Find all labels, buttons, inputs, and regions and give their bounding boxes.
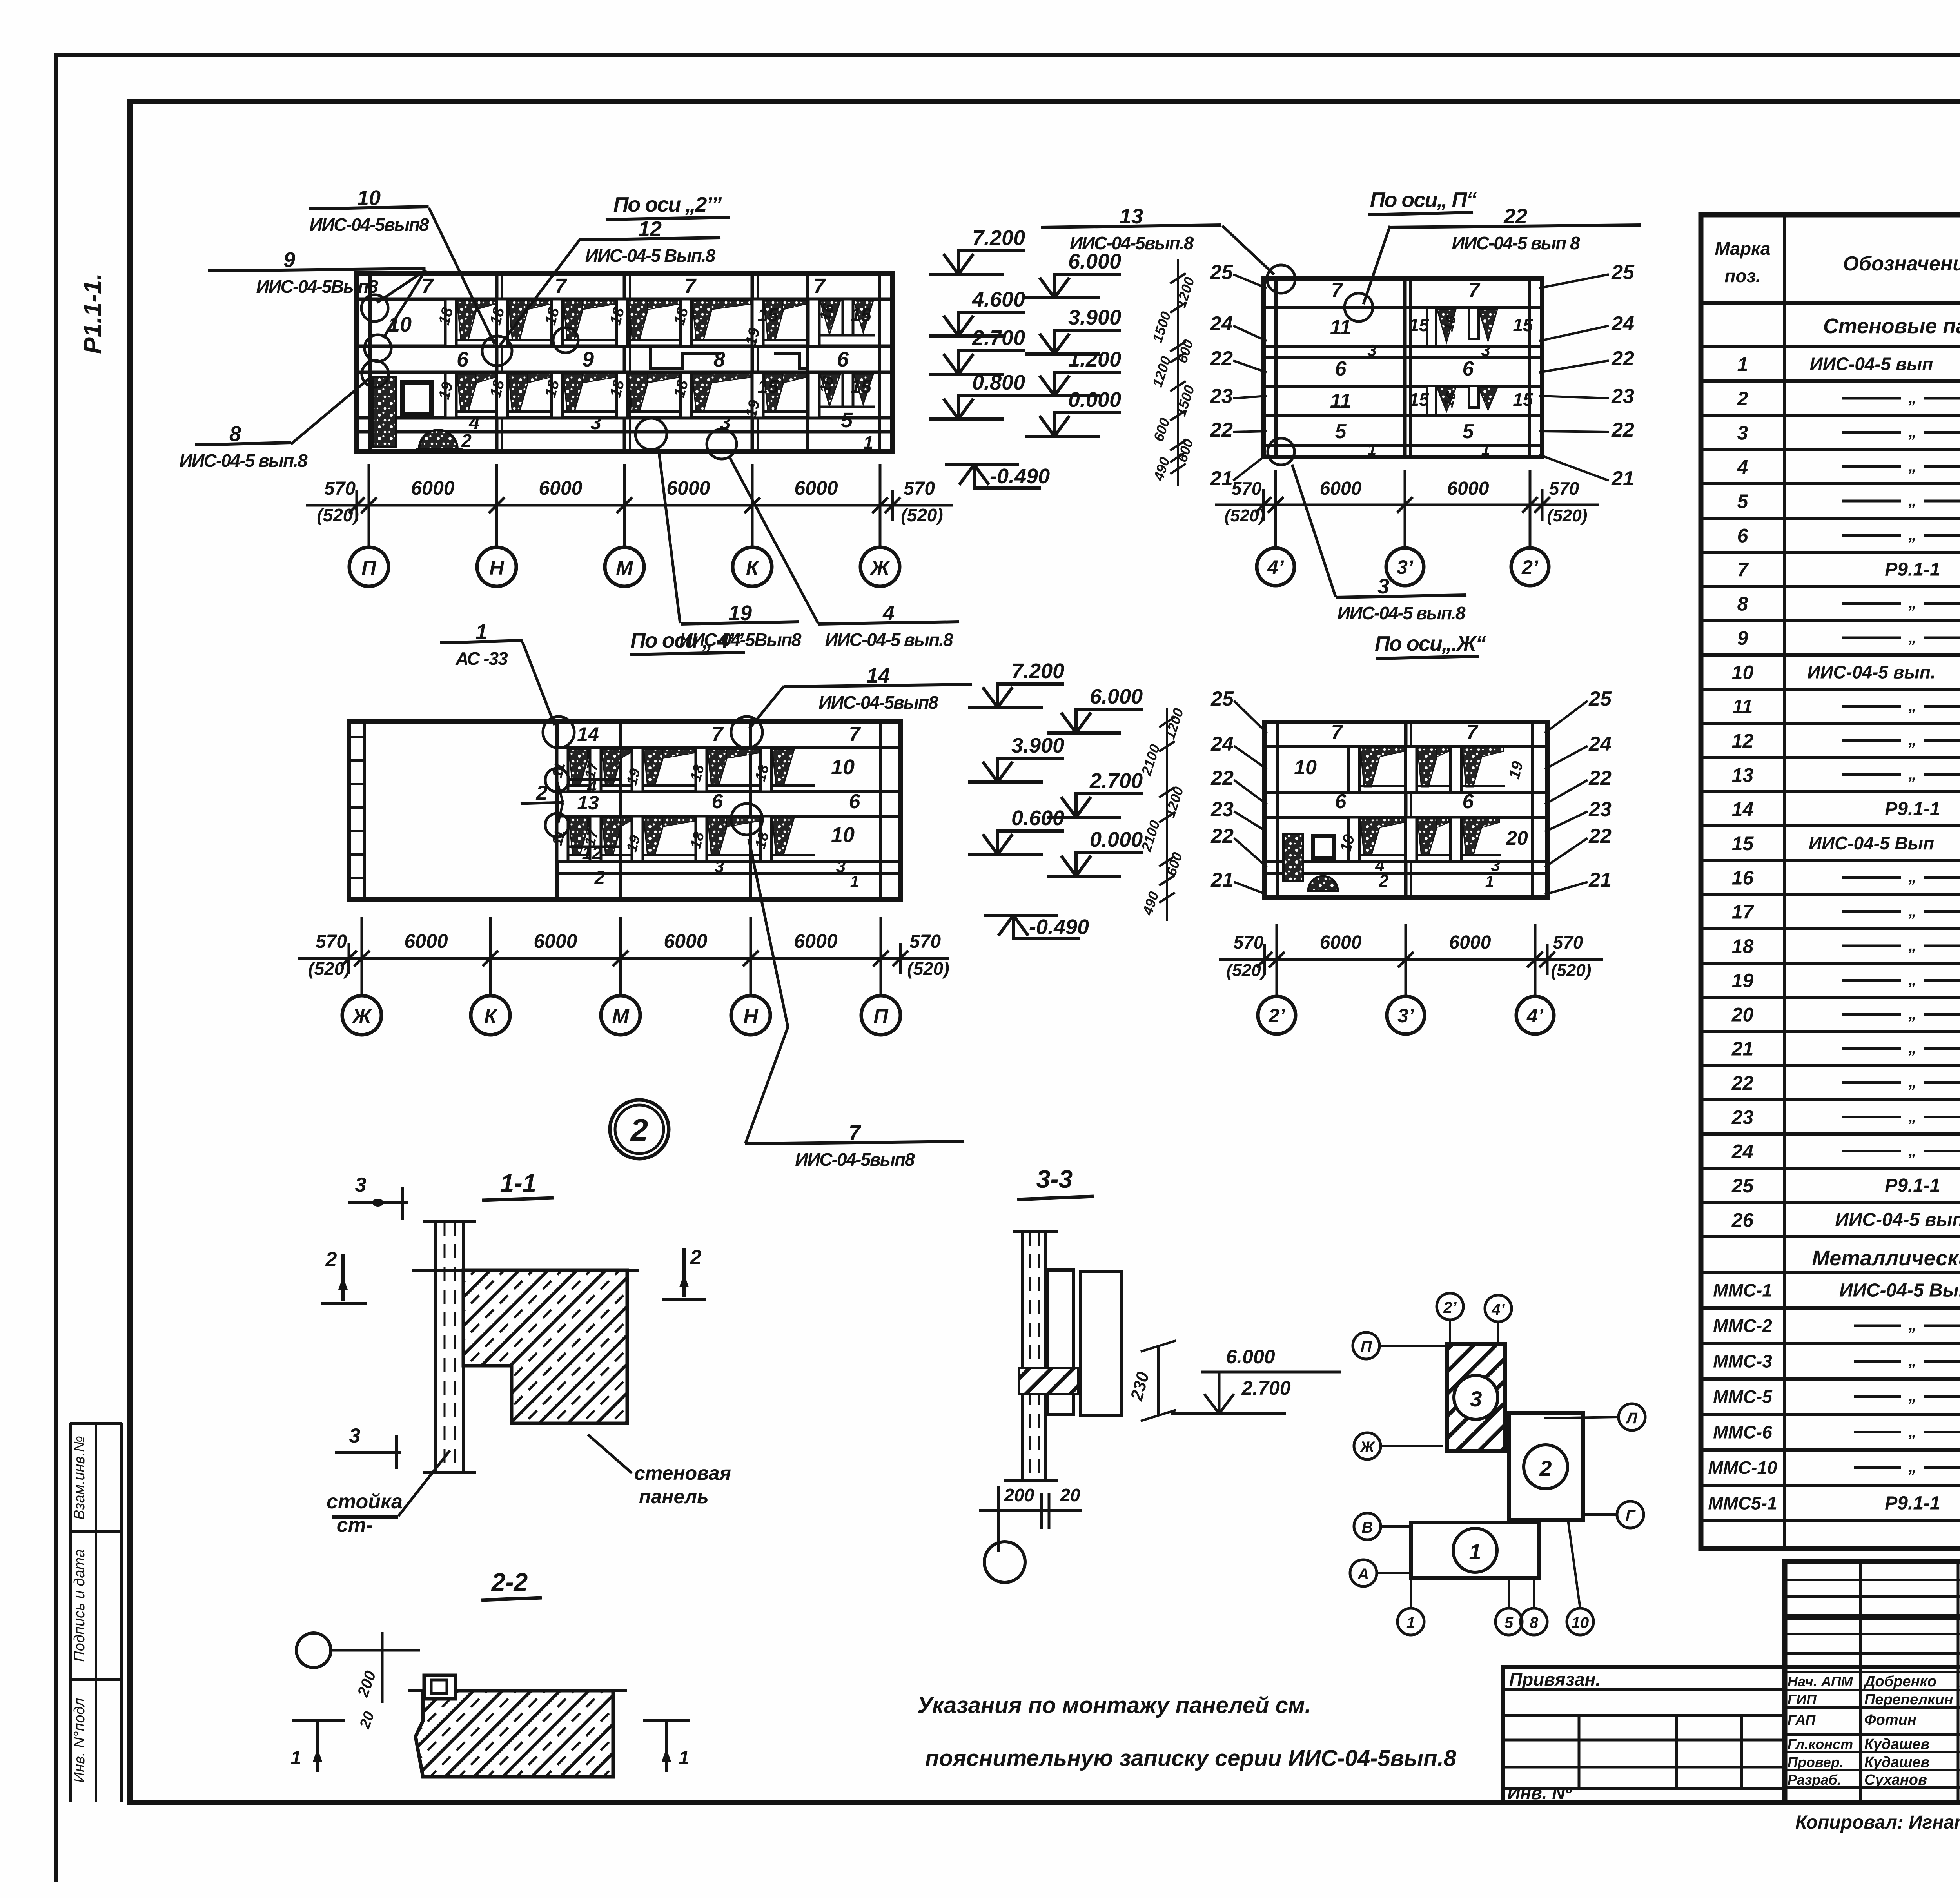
привязан box [1503, 1667, 1785, 1803]
svg-text:2: 2 [690, 1246, 702, 1269]
svg-text:Провер.: Провер. [1788, 1754, 1844, 1770]
svg-text:15: 15 [757, 377, 779, 397]
level mark -0.490 [984, 915, 1089, 939]
axis joint line [623, 274, 626, 451]
leader label 7/ИИС-04-5вып8 [745, 1121, 964, 1170]
leader label 14/ИИС-04-5вып8 [784, 664, 972, 713]
elevation "По оси 4prime" outline [349, 721, 900, 899]
svg-text:(520): (520) [1551, 961, 1592, 980]
svg-text:15: 15 [1409, 389, 1430, 410]
svg-text:ИИС-04-5вып8: ИИС-04-5вып8 [818, 692, 938, 713]
svg-text:22: 22 [1210, 347, 1233, 370]
column bottom tick [423, 1471, 476, 1474]
svg-text:ИИС-04-5 вып: ИИС-04-5 вып [1810, 354, 1933, 374]
svg-text:„: „ [1908, 595, 1916, 612]
svg-text:„: „ [1908, 869, 1916, 886]
svg-text:570: 570 [1232, 478, 1262, 499]
svg-text:22: 22 [1210, 767, 1234, 789]
svg-text:ИИС-04-5 вып 8: ИИС-04-5 вып 8 [1452, 233, 1580, 253]
svg-text:5: 5 [1504, 1614, 1514, 1631]
svg-text:9: 9 [582, 348, 594, 371]
svg-text:2: 2 [325, 1248, 337, 1271]
svg-text:ММС-5: ММС-5 [1713, 1386, 1773, 1407]
svg-text:пояснительную записку серии: пояснительную записку серии ИИС-04-5вып.… [925, 1746, 1457, 1771]
svg-text:Стеновые панели: Стеновые панели [1823, 314, 1960, 338]
svg-text:Н: Н [489, 557, 505, 579]
svg-text:570: 570 [909, 931, 941, 952]
svg-text:8: 8 [1530, 1614, 1539, 1631]
svg-text:Обозначение.: Обозначение. [1843, 252, 1960, 275]
joint line K-Zh bay [806, 274, 809, 451]
svg-text:23: 23 [1210, 385, 1233, 408]
svg-text:поз.: поз. [1724, 266, 1760, 286]
svg-text:Н: Н [743, 1005, 759, 1028]
svg-text:13: 13 [1120, 205, 1143, 228]
svg-text:АС -33: АС -33 [455, 648, 508, 669]
svg-text:П: П [1361, 1338, 1372, 1355]
svg-text:„: „ [1908, 424, 1916, 441]
svg-text:2: 2 [594, 867, 605, 888]
svg-text:7: 7 [1466, 721, 1479, 744]
svg-text:23: 23 [1611, 385, 1634, 408]
svg-text:„: „ [1908, 1040, 1916, 1057]
svg-text:Металлические соединительные: Металлические соединительные детали, (кг… [1812, 1247, 1960, 1270]
joint marker circles elevation 1 [361, 295, 388, 321]
svg-text:25: 25 [1611, 261, 1635, 284]
svg-text:1: 1 [291, 1747, 301, 1768]
svg-text:6: 6 [849, 790, 861, 813]
svg-text:4’: 4’ [1526, 1005, 1544, 1027]
svg-text:1-1: 1-1 [500, 1169, 537, 1197]
svg-text:Фотин: Фотин [1864, 1712, 1916, 1728]
svg-text:14: 14 [1732, 798, 1754, 820]
leader [1222, 226, 1274, 274]
svg-text:22: 22 [1611, 419, 1634, 441]
svg-text:ИИС-04-5 вып.15: ИИС-04-5 вып.15 [1835, 1210, 1960, 1230]
svg-text:По оси„.Ж“: По оси„.Ж“ [1375, 632, 1486, 655]
level mark 7.200 [929, 226, 1025, 274]
svg-text:К: К [746, 557, 760, 579]
axis circles 4prime 3prime 2prime [1257, 548, 1549, 586]
svg-text:3: 3 [715, 857, 724, 876]
key plan axis Ж [1354, 1433, 1381, 1459]
svg-text:Кудашев: Кудашев [1864, 1736, 1930, 1753]
svg-text:7: 7 [849, 1121, 862, 1145]
svg-text:20: 20 [1060, 1485, 1080, 1505]
svg-text:ГИП: ГИП [1788, 1691, 1817, 1707]
svg-text:2-2: 2-2 [491, 1568, 528, 1596]
svg-text:3: 3 [590, 412, 601, 434]
svg-text:ИИС-04-5вып.8: ИИС-04-5вып.8 [1070, 233, 1194, 253]
dimension line elevation 3 [298, 917, 949, 996]
svg-text:7: 7 [1331, 279, 1343, 302]
svg-text:21: 21 [1588, 869, 1612, 891]
svg-text:25: 25 [1210, 688, 1234, 710]
svg-text:6000: 6000 [1449, 932, 1491, 953]
svg-text:4: 4 [882, 601, 895, 625]
svg-text:Марка: Марка [1715, 238, 1770, 259]
joint circles elevation 3 [543, 717, 574, 748]
svg-text:стеновая: стеновая [634, 1462, 731, 1484]
svg-text:0.800: 0.800 [972, 371, 1025, 394]
svg-text:6000: 6000 [539, 477, 582, 499]
panel numbers elevation 3 [549, 723, 861, 890]
key plan blocks 1 2 3 [1350, 1293, 1645, 1635]
svg-text:2.700: 2.700 [1089, 769, 1143, 793]
svg-text:24: 24 [1210, 312, 1233, 335]
svg-text:16: 16 [1732, 867, 1754, 889]
svg-text:22: 22 [1503, 205, 1527, 228]
svg-text:6: 6 [1335, 790, 1347, 813]
svg-text:6: 6 [1335, 357, 1347, 380]
svg-text:1: 1 [1368, 441, 1376, 458]
svg-text:Р9.1-1: Р9.1-1 [1885, 559, 1940, 580]
svg-text:5: 5 [1737, 490, 1749, 512]
svg-text:(520): (520) [308, 958, 350, 979]
svg-text:6000: 6000 [1320, 932, 1362, 953]
svg-text:18: 18 [1732, 935, 1754, 957]
band labels left/right of elevation 4 [1210, 688, 1612, 895]
svg-text:„: „ [1908, 903, 1916, 920]
key plan axis 2&#8217; [1437, 1293, 1463, 1320]
svg-text:6000: 6000 [404, 930, 448, 952]
svg-text:22: 22 [1210, 825, 1234, 847]
elevation "По оси 2prime" outline [357, 274, 893, 451]
dimension line elevation 4 [1219, 924, 1603, 996]
svg-text:1: 1 [679, 1747, 690, 1768]
svg-text:6.000: 6.000 [1068, 250, 1121, 273]
svg-text:По оси „ 4’”: По оси „ 4’” [630, 629, 744, 652]
svg-text:26: 26 [1731, 1209, 1754, 1231]
level mark 1.200 [1025, 348, 1121, 396]
svg-text:2: 2 [461, 430, 472, 451]
svg-text:3-3: 3-3 [1036, 1165, 1073, 1193]
svg-text:ММС-2: ММС-2 [1713, 1316, 1772, 1336]
svg-text:19: 19 [728, 601, 752, 625]
svg-text:Р9.1-1: Р9.1-1 [1885, 799, 1940, 820]
title block [1785, 1561, 1960, 1802]
svg-text:12: 12 [638, 217, 662, 241]
svg-text:6000: 6000 [666, 477, 710, 499]
svg-text:4: 4 [587, 777, 597, 797]
svg-text:А: А [1357, 1566, 1369, 1583]
svg-text:Разраб.: Разраб. [1788, 1772, 1841, 1788]
svg-text:570: 570 [1549, 478, 1579, 499]
svg-text:„: „ [1908, 1388, 1916, 1405]
level mark 0.800 [929, 371, 1025, 419]
level mark 4.600 [929, 288, 1025, 336]
svg-text:Указания по монтажу панеле: Указания по монтажу панелей см. [917, 1693, 1311, 1718]
specification table [1701, 215, 1960, 1548]
dimension line elevation 1 [306, 464, 953, 547]
svg-text:6.000: 6.000 [1226, 1346, 1275, 1368]
svg-text:ММС-1: ММС-1 [1713, 1280, 1772, 1301]
svg-text:11: 11 [1330, 390, 1351, 412]
svg-text:Р1.1-1.: Р1.1-1. [78, 273, 107, 354]
svg-text:2: 2 [536, 782, 548, 804]
svg-text:ИИС-04-5 Вып.8: ИИС-04-5 Вып.8 [585, 245, 716, 266]
cut mark 2 left [341, 1254, 345, 1301]
window bands elevation 4 [1348, 746, 1505, 861]
leader label 2 with fan [521, 781, 563, 823]
svg-text:8: 8 [713, 348, 725, 371]
svg-text:6000: 6000 [664, 930, 707, 952]
svg-text:6: 6 [1463, 357, 1474, 380]
svg-text:„: „ [1908, 731, 1916, 749]
svg-text:6: 6 [712, 790, 724, 813]
svg-text:Кудашев: Кудашев [1864, 1754, 1930, 1771]
section 1-1 [321, 1169, 731, 1537]
svg-text:22: 22 [1588, 767, 1612, 789]
axis circles Ж К М Н П row2 [342, 996, 900, 1035]
corner panel strip left [368, 274, 372, 451]
svg-text:10: 10 [831, 823, 855, 847]
svg-text:17: 17 [1732, 901, 1755, 923]
leader [291, 377, 371, 444]
svg-text:5: 5 [1463, 420, 1474, 443]
axis circles П Н М К Ж [349, 547, 900, 586]
svg-text:1: 1 [850, 873, 859, 890]
svg-text:7.200: 7.200 [972, 226, 1025, 250]
leader [746, 839, 788, 1143]
svg-text:1: 1 [863, 432, 873, 453]
big double circle 2 marker [610, 1100, 669, 1159]
svg-text:ГАП: ГАП [1788, 1712, 1816, 1728]
cut mark 3 bottom [335, 1451, 401, 1454]
svg-text:„: „ [1908, 1142, 1916, 1159]
svg-text:6: 6 [457, 348, 469, 371]
svg-text:11: 11 [1330, 316, 1351, 339]
svg-text:15: 15 [1732, 833, 1754, 855]
leader [1363, 226, 1390, 304]
svg-text:7: 7 [555, 274, 568, 298]
svg-text:15: 15 [1409, 315, 1430, 335]
svg-text:13: 13 [1732, 764, 1754, 786]
svg-text:6000: 6000 [794, 477, 838, 499]
vertical dim chain left of elevation 2 [1149, 259, 1198, 486]
svg-text:В: В [1362, 1519, 1373, 1536]
leader [750, 686, 784, 728]
svg-text:„: „ [1908, 389, 1916, 406]
svg-text:25: 25 [1210, 261, 1233, 284]
leader [377, 270, 426, 303]
svg-text:Копировал: Игнатовай: Копировал: Игнатовай [1795, 1812, 1960, 1833]
svg-text:15: 15 [1513, 389, 1534, 410]
svg-text:8: 8 [229, 422, 241, 446]
key plan axis 8 [1521, 1608, 1547, 1635]
band labels 25 24 22 23 22 21 left of elevation 2 [1210, 261, 1635, 490]
svg-text:Л: Л [1625, 1410, 1638, 1427]
svg-text:Р9.1-1: Р9.1-1 [1885, 1493, 1940, 1514]
svg-text:21: 21 [1210, 869, 1234, 891]
svg-text:8: 8 [1737, 593, 1748, 615]
svg-text:ММС-3: ММС-3 [1713, 1351, 1772, 1372]
axis joint line [751, 274, 754, 451]
svg-text:„: „ [1908, 1317, 1916, 1334]
svg-text:Подпись и дата: Подпись и дата [71, 1549, 88, 1662]
leader label 19/ИИС-04-5Вып8 [680, 601, 802, 650]
cut mark 2 right [682, 1248, 686, 1297]
svg-text:„: „ [1908, 1108, 1916, 1125]
svg-text:2: 2 [1379, 871, 1389, 891]
svg-text:570: 570 [1553, 932, 1583, 953]
level mark 7.200 [968, 659, 1064, 708]
svg-text:9: 9 [1737, 627, 1748, 649]
svg-text:К: К [484, 1005, 498, 1028]
key plan axis Г [1617, 1501, 1644, 1528]
svg-text:Р9.1-1: Р9.1-1 [1885, 1175, 1940, 1196]
leader [429, 208, 495, 344]
leader label 22/ИИС-04-5 вып 8 [1390, 205, 1641, 253]
svg-text:200: 200 [1004, 1485, 1034, 1505]
svg-text:ММС5-1: ММС5-1 [1708, 1493, 1777, 1513]
svg-text:Ж: Ж [869, 557, 891, 579]
leader label 9/ИИС-04-5Вып8 [208, 248, 426, 297]
svg-text:„: „ [1908, 766, 1916, 783]
column right edge [462, 1221, 465, 1472]
svg-text:„: „ [1908, 458, 1916, 475]
leader label 8/ИИС-04-5 вып.8 [179, 422, 308, 471]
leader [730, 458, 818, 623]
vert dim [381, 1632, 384, 1703]
svg-text:Перепелкин: Перепелкин [1864, 1691, 1953, 1708]
svg-text:11: 11 [1733, 696, 1753, 718]
svg-text:(520): (520) [1227, 961, 1267, 980]
key plan axis 5 [1495, 1608, 1522, 1635]
svg-text:4’: 4’ [1267, 556, 1284, 578]
svg-text:22: 22 [1611, 347, 1634, 370]
step notches in middle band [651, 346, 721, 368]
svg-text:23: 23 [1588, 798, 1612, 821]
panel numbers elevation 4 [1294, 721, 1528, 891]
title По оси Ж [1375, 632, 1486, 659]
svg-text:1: 1 [1481, 441, 1490, 458]
svg-text:Взам.инв.№: Взам.инв.№ [71, 1436, 88, 1520]
circle marker [296, 1633, 331, 1668]
svg-text:14: 14 [866, 664, 890, 688]
svg-text:10: 10 [1732, 662, 1754, 684]
svg-text:24: 24 [1611, 312, 1634, 335]
svg-text:По оси„ П“: По оси„ П“ [1370, 188, 1477, 212]
svg-text:ММС-10: ММС-10 [1708, 1457, 1777, 1478]
leader label 13/ИИС-04-5вып.8 [1041, 205, 1221, 253]
svg-text:0.000: 0.000 [1068, 388, 1121, 412]
svg-text:10: 10 [357, 186, 381, 210]
cut mark 3 top [348, 1201, 408, 1204]
svg-text:12: 12 [1732, 730, 1754, 752]
leader [500, 239, 580, 345]
svg-text:6000: 6000 [1320, 478, 1362, 499]
corner panel strip right [878, 274, 881, 451]
svg-text:Г: Г [1626, 1507, 1636, 1524]
key plan axis В [1354, 1513, 1381, 1540]
level mark -0.490 [945, 465, 1050, 488]
svg-text:ИИС-04-5вып8: ИИС-04-5вып8 [309, 214, 429, 235]
key plan axis А [1350, 1560, 1377, 1586]
elevation "По оси П" outline [1263, 278, 1542, 457]
title По оси 4prime [630, 629, 745, 655]
svg-text:21: 21 [1611, 467, 1634, 490]
leader [1292, 465, 1336, 597]
svg-text:6.000: 6.000 [1090, 685, 1143, 708]
svg-text:6: 6 [1463, 790, 1474, 813]
15-16-15 panels right bay row1 [808, 299, 875, 418]
svg-text:2’: 2’ [1521, 556, 1539, 578]
leader label 3/ИИС-04-5 вып.8 [1336, 575, 1466, 623]
svg-text:Гл.конст: Гл.конст [1788, 1736, 1853, 1752]
svg-text:ИИС-04-5 Вып.8: ИИС-04-5 Вып.8 [1839, 1280, 1960, 1301]
svg-text:М: М [616, 557, 633, 579]
svg-text:7.200: 7.200 [1011, 659, 1064, 683]
inventory stamp column (Взам.инв.№ / Подпись и дата / Инв.№ подл.) [70, 1423, 122, 1802]
panel number labels elevation 1 [388, 274, 873, 453]
svg-text:1: 1 [1469, 1539, 1481, 1564]
dimension line elevation 2 [1215, 470, 1599, 547]
svg-text:„: „ [1908, 629, 1916, 646]
level marks row 2 [968, 659, 1143, 939]
svg-text:М: М [612, 1005, 630, 1028]
svg-text:9: 9 [283, 248, 295, 272]
svg-text:(520): (520) [1225, 506, 1265, 525]
svg-text:5: 5 [1335, 420, 1347, 443]
svg-text:7: 7 [684, 274, 697, 298]
svg-text:ИИС-04-5 Вып: ИИС-04-5 Вып [1809, 833, 1934, 853]
svg-text:24: 24 [1588, 733, 1612, 755]
level mark 0.000 [1025, 388, 1121, 436]
svg-text:2: 2 [1539, 1456, 1552, 1481]
svg-text:Ж: Ж [1359, 1439, 1375, 1456]
svg-text:7: 7 [1468, 279, 1481, 302]
svg-text:2’: 2’ [1443, 1299, 1457, 1316]
level mark 0.000 [1047, 828, 1143, 876]
svg-text:5: 5 [841, 408, 853, 432]
svg-text:-0.490: -0.490 [990, 465, 1050, 488]
svg-text:„: „ [1908, 1423, 1916, 1441]
section 3-3 [979, 1165, 1341, 1582]
svg-text:стойка: стойка [327, 1490, 403, 1513]
table body rows [1731, 348, 1960, 1231]
svg-text:„: „ [1908, 697, 1916, 715]
svg-text:15: 15 [757, 305, 779, 326]
svg-text:2: 2 [1737, 388, 1748, 410]
key plan axis 4&#8217; [1485, 1295, 1512, 1322]
note text указания по монтажу [917, 1693, 1457, 1771]
svg-text:1.200: 1.200 [1068, 348, 1121, 371]
svg-text:570: 570 [1234, 932, 1264, 953]
svg-text:Инв. N°подл: Инв. N°подл [71, 1698, 88, 1783]
level mark 0.600 [968, 806, 1064, 855]
svg-text:10: 10 [1572, 1614, 1589, 1631]
svg-text:7: 7 [712, 723, 724, 746]
svg-text:П: П [361, 557, 377, 579]
svg-text:22: 22 [1210, 419, 1233, 441]
svg-text:(520): (520) [317, 505, 359, 525]
svg-text:2: 2 [630, 1112, 648, 1147]
svg-text:4’: 4’ [1491, 1301, 1505, 1318]
svg-text:3: 3 [1377, 575, 1389, 598]
svg-text:„: „ [1908, 937, 1916, 954]
leader label 12/ИИС-04-5 Вып.8 [579, 217, 720, 266]
column left edge [434, 1221, 437, 1472]
svg-text:Инв. Nº: Инв. Nº [1507, 1783, 1572, 1803]
svg-text:4: 4 [1737, 456, 1748, 478]
svg-text:Ж: Ж [351, 1005, 372, 1028]
table MMC rows [1708, 1279, 1960, 1514]
svg-text:15: 15 [1513, 315, 1534, 335]
leader [383, 270, 426, 338]
window band row2 of elevation 1 [445, 372, 808, 418]
svg-text:6000: 6000 [1447, 478, 1489, 499]
